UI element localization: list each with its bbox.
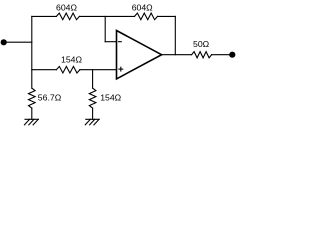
svg-text:604Ω: 604Ω bbox=[132, 2, 153, 12]
ground G1 bbox=[24, 119, 38, 125]
svg-text:56.7Ω: 56.7Ω bbox=[38, 93, 62, 103]
output terminal dot bbox=[229, 52, 235, 58]
wire top rail left segment bbox=[32, 15, 57, 17]
wire input to left vertical bbox=[6, 41, 32, 43]
wire bottom rail to non-inverting input bbox=[80, 69, 117, 71]
input terminal dot bbox=[1, 39, 7, 45]
svg-text:604Ω: 604Ω bbox=[56, 2, 77, 12]
wire bottom rail left segment bbox=[32, 69, 57, 71]
svg-text:154Ω: 154Ω bbox=[100, 93, 121, 103]
svg-text:50Ω: 50Ω bbox=[193, 39, 210, 49]
svg-text:154Ω: 154Ω bbox=[61, 54, 82, 64]
ground G2 bbox=[85, 119, 99, 125]
wire op-amp output bbox=[162, 54, 192, 56]
wire 56.7ohm to ground bbox=[31, 108, 33, 119]
wire left vertical bbox=[31, 16, 33, 88]
wire top rail right segment bbox=[158, 15, 176, 17]
op-amp U1 bbox=[117, 31, 162, 79]
wire feedback vertical to output node bbox=[174, 16, 176, 54]
wire non-inverting node vertical bbox=[92, 70, 94, 88]
wire inverting node vertical bbox=[104, 16, 106, 41]
resistor R2 604ohm feedback bbox=[132, 2, 158, 19]
resistor R5 154ohm shunt bbox=[89, 88, 121, 108]
resistor R6 50ohm output bbox=[192, 39, 212, 58]
wire to output terminal bbox=[212, 54, 230, 56]
wire top rail middle segment bbox=[79, 15, 134, 17]
resistor R1 604ohm bbox=[56, 2, 79, 19]
resistor R4 56.7ohm shunt bbox=[29, 88, 62, 108]
op-amp inverting pin minus sign bbox=[119, 41, 122, 43]
op-amp non-inverting pin plus sign bbox=[119, 68, 123, 70]
resistor R3 154ohm series bbox=[56, 54, 82, 73]
wire to inverting input bbox=[105, 41, 116, 43]
wire 154ohm to ground bbox=[92, 108, 94, 119]
